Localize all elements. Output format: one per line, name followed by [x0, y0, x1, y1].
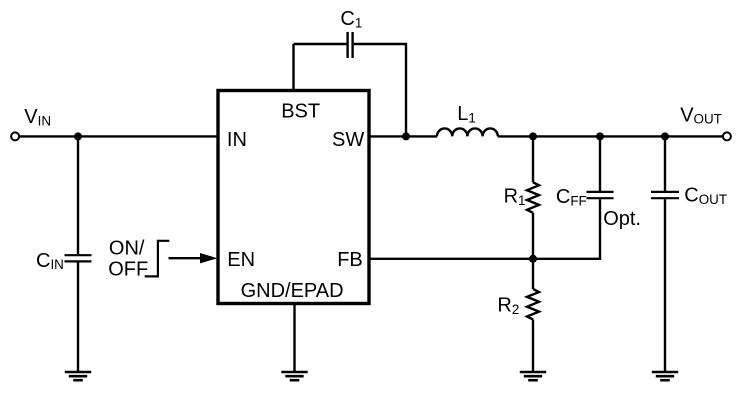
- svg-text:OFF: OFF: [108, 259, 148, 281]
- wire VOUT rail: [498, 135, 723, 137]
- wire COUT bottom: [664, 199, 666, 372]
- wire SW out: [369, 135, 437, 137]
- terminal VOUT: [723, 132, 731, 140]
- capacitor CFF: [587, 192, 614, 198]
- arrowhead EN: [200, 253, 217, 263]
- wire CFF to FB: [533, 199, 600, 259]
- wire VIN rail: [19, 135, 218, 137]
- wire COUT top: [664, 136, 666, 191]
- wire C1 to SW node: [354, 44, 406, 136]
- wire R1 top: [532, 136, 534, 182]
- IC U1 body: [218, 91, 369, 304]
- ground COUT: [652, 372, 678, 380]
- svg-text:Opt.: Opt.: [603, 208, 641, 230]
- wire EN arrow: [169, 257, 203, 259]
- resistor R2: [527, 289, 539, 320]
- junction R1 node: [529, 132, 537, 140]
- svg-text:IN: IN: [227, 129, 247, 151]
- step waveform symbol: [145, 241, 170, 277]
- junction FB node: [529, 255, 537, 263]
- wire GND/EPAD: [293, 304, 295, 373]
- svg-text:ON/: ON/: [109, 238, 145, 260]
- junction SW/C1: [402, 132, 410, 140]
- wire CIN bottom: [77, 262, 79, 372]
- wire CIN top: [77, 136, 79, 254]
- wire CFF top: [599, 136, 601, 191]
- wire R1 bottom: [532, 213, 534, 259]
- svg-text:GND/EPAD: GND/EPAD: [241, 280, 344, 302]
- svg-text:FB: FB: [337, 249, 363, 271]
- svg-text:SW: SW: [332, 129, 364, 151]
- capacitor C1: [348, 32, 353, 58]
- terminal VIN: [11, 132, 19, 140]
- wire FB: [369, 258, 533, 260]
- ground U1: [281, 372, 307, 380]
- ground R2: [520, 372, 546, 380]
- capacitor COUT: [651, 192, 679, 198]
- wire R2 top: [532, 259, 534, 289]
- junction CFF node: [596, 132, 604, 140]
- wire R2 bottom: [532, 320, 534, 373]
- svg-text:BST: BST: [281, 100, 320, 122]
- wire BST up: [292, 44, 294, 91]
- junction COUT node: [661, 132, 669, 140]
- capacitor CIN: [65, 255, 92, 261]
- resistor R1: [527, 182, 539, 213]
- wire BST to C1: [294, 43, 347, 45]
- ground CIN: [65, 372, 91, 380]
- svg-text:EN: EN: [227, 249, 255, 271]
- junction VIN/CIN: [74, 132, 82, 140]
- inductor L1: [437, 128, 498, 136]
